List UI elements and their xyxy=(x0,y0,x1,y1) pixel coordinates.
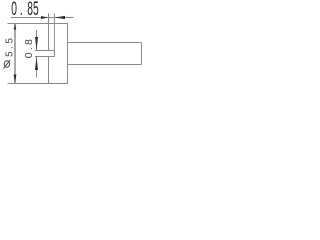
svg-text:0: 0 xyxy=(11,0,17,20)
head top edge with extension to left xyxy=(8,23,69,25)
hole lower edge with extension xyxy=(35,56,55,58)
svg-text:0.8: 0.8 xyxy=(23,37,35,58)
dimension text 0.85 xyxy=(11,0,38,20)
dimension line 0.8 lower segment xyxy=(36,57,38,78)
arrow right, tip on left extension of 0.85 xyxy=(41,16,48,19)
svg-text:5.5: 5.5 xyxy=(5,35,16,56)
svg-text:.: . xyxy=(20,0,23,20)
arrow down at bottom of dia5.5 xyxy=(14,75,17,84)
dimension line dia5.5 vertical xyxy=(14,24,16,84)
dimension line 0.85 xyxy=(11,17,74,19)
svg-text:85: 85 xyxy=(27,0,38,20)
head right edge xyxy=(67,24,69,84)
inner step line / 0.85 right extension xyxy=(53,14,55,57)
head bottom edge with extension to left xyxy=(8,83,69,85)
head left edge upper / 0.85 left extension xyxy=(48,14,50,51)
shaft bottom edge xyxy=(68,64,142,66)
diameter symbol of dia5.5 xyxy=(4,60,11,69)
shaft right end xyxy=(141,43,143,65)
hole upper edge with extension xyxy=(35,50,55,52)
shaft top edge xyxy=(68,42,142,44)
head left edge lower xyxy=(48,57,50,84)
arrow left, tip on right extension of 0.85 xyxy=(55,16,65,19)
arrow up at top of dia5.5 xyxy=(14,24,17,30)
arrow down, tip on hole upper edge (0.8) xyxy=(35,37,38,50)
dimension line 0.8 upper segment xyxy=(36,30,38,51)
arrow up, tip on hole lower edge (0.8) xyxy=(35,57,38,70)
